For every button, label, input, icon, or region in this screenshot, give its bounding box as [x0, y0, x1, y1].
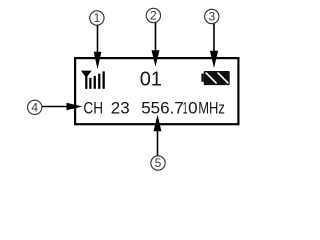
- svg-text:4: 4: [31, 101, 38, 115]
- svg-text:1: 1: [183, 98, 188, 117]
- arrow 2: [155, 23, 157, 52]
- display box: [75, 58, 238, 124]
- svg-text:01: 01: [140, 69, 162, 91]
- svg-text:556.7: 556.7: [141, 99, 184, 118]
- callout circle 1: [90, 11, 104, 25]
- antenna icon: [81, 71, 92, 89]
- callout circle 4: [28, 100, 42, 114]
- svg-text:3: 3: [208, 10, 215, 24]
- signal bar 4: [103, 71, 105, 88]
- arrow 3: [213, 24, 215, 52]
- svg-text:1: 1: [94, 11, 101, 25]
- callout circle 5: [151, 156, 165, 170]
- svg-text:0: 0: [188, 99, 197, 118]
- arrow 1: [97, 25, 99, 53]
- signal bar 3: [98, 74, 100, 89]
- svg-text:MHz: MHz: [198, 99, 225, 118]
- arrow 5: [157, 130, 159, 156]
- callout circle 3: [205, 9, 219, 23]
- svg-text:23: 23: [111, 99, 130, 118]
- signal bar 2: [94, 76, 96, 89]
- svg-text:5: 5: [155, 156, 162, 170]
- svg-text:2: 2: [150, 9, 157, 23]
- battery icon: [201, 74, 203, 82]
- arrow 4: [42, 106, 68, 108]
- svg-text:CH: CH: [83, 99, 103, 118]
- bottom text CH 23 556.710MHz: [83, 98, 224, 118]
- signal bar 1: [89, 78, 91, 89]
- callout circle 2: [146, 8, 160, 22]
